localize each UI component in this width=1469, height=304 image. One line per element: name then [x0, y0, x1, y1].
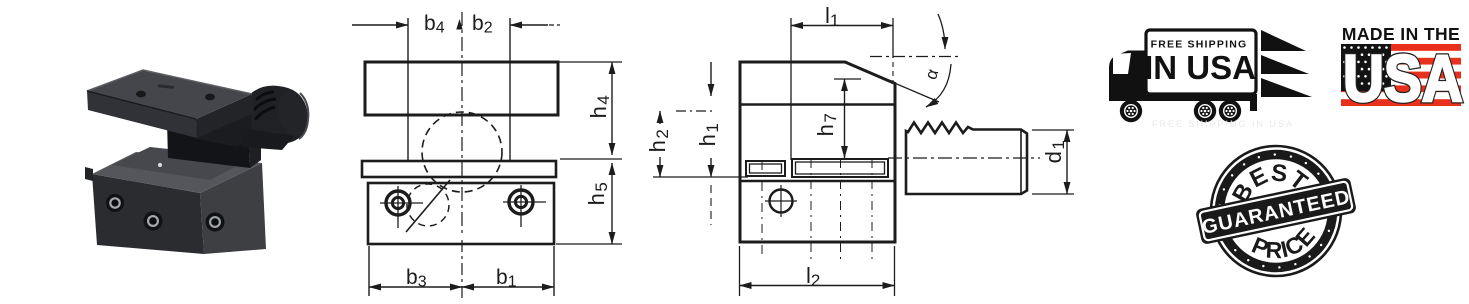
slash line	[406, 180, 450, 232]
l2 extension left	[739, 246, 741, 296]
cylinder shank body	[250, 86, 308, 144]
speed flag 1	[1261, 30, 1306, 51]
svg-text:b4: b4	[424, 12, 445, 37]
cab	[1109, 51, 1146, 102]
extension line b4	[407, 18, 409, 161]
bolt hole left	[380, 186, 423, 228]
extension line b2	[509, 18, 511, 161]
chassis	[1109, 95, 1254, 102]
dimension line h7	[844, 79, 846, 158]
angle alpha arc upper	[938, 14, 945, 49]
svg-text:MADE IN THE: MADE IN THE	[1342, 24, 1460, 44]
text PRICE on arc	[1230, 200, 1332, 267]
top section line	[740, 103, 895, 106]
speed flag 3	[1261, 78, 1312, 97]
vertical centerline	[461, 12, 463, 236]
d1 extension top	[1032, 129, 1074, 131]
screw axis line 4	[871, 159, 873, 259]
extension line l1 left	[790, 18, 792, 160]
svg-text:IN USA: IN USA	[1144, 49, 1256, 86]
h1 dimension lower segment	[710, 158, 712, 177]
shank end inner line	[1020, 130, 1022, 194]
outer circle	[1198, 133, 1354, 289]
text USA	[1343, 42, 1463, 116]
screw axis line 3	[840, 159, 842, 259]
base top face step shading	[112, 147, 252, 180]
top plate front face	[87, 91, 197, 138]
plate hole 1	[136, 91, 146, 98]
base block right face	[200, 163, 266, 254]
dimension line b4 (left)	[352, 24, 408, 26]
top rectangle body	[365, 62, 558, 115]
under-plate shadow mass	[196, 99, 262, 147]
banner	[1195, 177, 1357, 245]
h2 dimension line lower	[659, 157, 661, 177]
body outline	[740, 62, 895, 242]
dash tail of b2 dim	[549, 24, 560, 26]
pedestal block	[167, 122, 250, 168]
clamp screw circle	[765, 185, 797, 217]
extension top right h4	[558, 61, 622, 63]
speed flag 2	[1261, 55, 1309, 74]
svg-text:h5: h5	[584, 181, 611, 206]
h2 reference dash line	[676, 110, 714, 112]
base block top face	[92, 152, 262, 193]
plate hole 2	[205, 94, 215, 101]
wheel 2	[1194, 100, 1216, 122]
label h5	[584, 181, 611, 206]
wheel 1	[1120, 100, 1142, 122]
shank outline with thread	[906, 123, 1027, 195]
horizontal reference dash line	[870, 56, 958, 58]
cab window	[1113, 53, 1131, 74]
left notch	[85, 167, 93, 181]
svg-text:USA: USA	[1343, 42, 1463, 116]
chamfer extension line	[845, 62, 939, 102]
thick ring	[1208, 143, 1344, 279]
bottom extension line left of body	[653, 176, 748, 178]
left slot inner	[750, 164, 782, 173]
extension line l1 right dashed tail	[892, 62, 894, 82]
svg-text:d1: d1	[1041, 139, 1068, 164]
cylinder end face	[274, 88, 312, 139]
white pin on base	[158, 163, 162, 167]
top plate top face	[87, 70, 252, 119]
flag stripes	[1341, 44, 1461, 106]
screw axis line 1	[761, 161, 763, 259]
screw 1	[106, 194, 124, 212]
centerline tail bottom	[461, 240, 463, 298]
svg-text:FREE SHIPPING IN USA: FREE SHIPPING IN USA	[1152, 119, 1294, 129]
svg-text:b3: b3	[406, 266, 427, 291]
bolt hole right	[503, 185, 546, 227]
rail surface line	[740, 180, 895, 183]
pedestal right sliver	[249, 129, 261, 168]
extension line left b3	[368, 246, 370, 296]
bottom block	[368, 183, 554, 244]
rear bumper	[1250, 94, 1257, 111]
cylinder end rim highlight	[299, 93, 308, 139]
dimension line b3	[369, 286, 462, 288]
label h1	[695, 122, 722, 147]
svg-text:h2: h2	[645, 128, 672, 153]
dimension line d1	[1066, 130, 1068, 194]
svg-text:b2: b2	[472, 12, 493, 37]
trailer box	[1146, 30, 1256, 94]
shank centerline	[888, 157, 1040, 159]
label d1	[1041, 139, 1068, 164]
label h2	[645, 128, 672, 153]
dimension line l1	[791, 25, 893, 27]
dimension line h5	[611, 163, 613, 244]
extension bottom right h5	[556, 243, 622, 245]
flag canton	[1341, 44, 1391, 91]
dimension line b2 (right)	[510, 24, 548, 26]
extension line l1 right	[892, 18, 894, 58]
screw 3	[206, 213, 225, 232]
d1 extension bottom	[1032, 193, 1074, 195]
extension mid right h4/h5	[560, 158, 622, 160]
screw 2	[144, 212, 163, 231]
svg-text:α: α	[921, 67, 942, 82]
wheel 3	[1219, 100, 1241, 122]
svg-text:h4: h4	[586, 94, 613, 119]
base block front face	[92, 174, 204, 254]
svg-text:h7: h7	[813, 112, 840, 137]
dashed circle alt position	[407, 184, 449, 226]
svg-text:l1: l1	[825, 3, 839, 30]
canton stars	[1343, 46, 1388, 85]
angle alpha arc lower	[926, 64, 951, 107]
screw axis line 2	[810, 159, 812, 259]
text BEST on arc	[1240, 175, 1305, 218]
dashed circle d2 flange	[422, 112, 502, 192]
plate front face top edge line	[87, 91, 196, 119]
centerline arrow tick	[456, 19, 462, 30]
label h7	[813, 112, 840, 137]
h1 axis dash tail	[710, 185, 712, 225]
top plate right face	[196, 94, 254, 138]
h7 top tick	[834, 78, 861, 80]
top plate rail	[362, 161, 556, 177]
left slot outer	[746, 161, 785, 176]
cylinder lower tail	[240, 128, 294, 150]
svg-text:l2: l2	[806, 263, 820, 290]
svg-text:h1: h1	[695, 122, 722, 147]
extension line right b1	[553, 246, 555, 296]
right slot outer	[792, 159, 888, 177]
right slot inner	[796, 162, 885, 174]
plate slot mark	[158, 84, 174, 89]
svg-text:b1: b1	[496, 266, 517, 291]
dimension line l2	[740, 285, 895, 287]
cylinder ribbed clamp	[254, 92, 276, 120]
top plate edge highlight	[87, 70, 252, 94]
h2 dimension line upper	[659, 111, 661, 124]
dimension line b1	[462, 286, 554, 288]
label h4	[586, 94, 613, 119]
h1 dimension upper segment	[710, 62, 712, 96]
dimension line h4	[611, 62, 613, 155]
l2 extension right	[894, 246, 896, 296]
ring beads	[1207, 142, 1345, 280]
